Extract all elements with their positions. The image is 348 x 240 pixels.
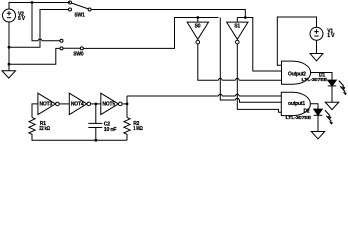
svg-text:NOT4: NOT4 <box>71 102 84 108</box>
svg-text:10 nF: 10 nF <box>104 127 117 133</box>
svg-text:5 V: 5 V <box>18 16 26 22</box>
svg-text:LTL-307EE: LTL-307EE <box>302 77 329 83</box>
svg-text:22 kΩ: 22 kΩ <box>39 126 50 132</box>
svg-text:D2: D2 <box>304 109 310 115</box>
svg-text:S0: S0 <box>195 24 201 30</box>
svg-text:NOT5: NOT5 <box>102 102 115 108</box>
svg-text:Output2: Output2 <box>288 71 306 77</box>
svg-text:SW0: SW0 <box>73 52 84 58</box>
svg-text:S1: S1 <box>234 24 240 30</box>
svg-text:LTL-307EE: LTL-307EE <box>286 115 313 121</box>
svg-text:SW1: SW1 <box>74 13 85 19</box>
svg-text:1 V: 1 V <box>327 33 335 39</box>
svg-text:1 MΩ: 1 MΩ <box>133 126 143 132</box>
svg-text:NOT3: NOT3 <box>40 102 53 108</box>
svg-text:output1: output1 <box>288 101 305 107</box>
